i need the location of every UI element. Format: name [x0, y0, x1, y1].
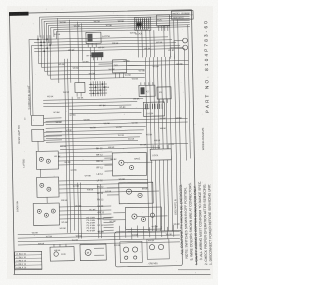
- terminal block TB1: [15, 251, 42, 270]
- wire: left trunk C: [72, 97, 75, 231]
- wire: bottom bus 1: [18, 232, 180, 235]
- plug P5 contacts: [147, 239, 169, 265]
- wire: bottom bus 2: [18, 235, 180, 238]
- wire: right margin trunk 2: [188, 24, 191, 158]
- connector J2 pin grid: [89, 81, 107, 96]
- lamp DS2: [183, 45, 188, 50]
- wire: center link 3: [43, 105, 131, 107]
- wire: S5 (RF unit) lead 2: [59, 183, 148, 185]
- wire: cluster link b: [46, 197, 48, 203]
- switch S1 (selector): [75, 82, 85, 96]
- wire: mid harness bus 4: [46, 130, 144, 132]
- label: model/rating table: [171, 11, 193, 20]
- wire: cord feed 1: [119, 226, 121, 240]
- wire: mid harness bus 1: [46, 118, 188, 121]
- wire: cluster link a: [40, 169, 42, 177]
- wire: cord feed 2: [125, 227, 127, 238]
- wire: cluster link c: [37, 141, 39, 151]
- wire: top supply bus 7: [54, 27, 190, 37]
- wire: S5 (RF unit) lead 4: [59, 191, 148, 193]
- wire: timer output 2: [141, 30, 144, 57]
- relay K4 (bake element circuit): [104, 152, 152, 176]
- wire: left trunk B: [67, 59, 70, 233]
- wire: S4 (LF unit) lead 2: [58, 156, 112, 157]
- wire: top supply bus 4: [46, 21, 190, 42]
- wire: feed pair b: [80, 183, 81, 239]
- wire: top supply bus 1: [40, 14, 190, 37]
- relay K2 (bake): [139, 82, 155, 96]
- wire: right trunk 3: [153, 57, 156, 231]
- wire: cord feed 10: [173, 225, 175, 237]
- wire: center link 1: [43, 98, 143, 100]
- plug P2: [91, 52, 103, 60]
- wire: feed pair a: [78, 183, 79, 239]
- connector P3 with pin list: [86, 217, 113, 233]
- wire: timer output 1: [137, 30, 140, 57]
- wire: bus drop 3: [78, 22, 79, 83]
- relay K3 (broil): [157, 87, 171, 103]
- wire: right trunk 7: [169, 57, 172, 231]
- wire: lamp leads: [174, 41, 183, 59]
- switch S5 (RF unit): [37, 177, 59, 197]
- wire: harness feeder 1: [38, 54, 188, 63]
- wire: right trunk L2: [178, 20, 182, 229]
- wire: S5 (RF unit) lead 3: [59, 187, 148, 189]
- switch S2 (oven light): [24, 115, 61, 126]
- relay K8 (lock motor): [150, 145, 171, 160]
- wire: timer output 5: [153, 30, 156, 57]
- wire: cord feed 6: [149, 227, 151, 237]
- wire: center link d1: [69, 108, 149, 110]
- relay K5 (broil element circuit): [107, 182, 159, 204]
- wire: timer output 4: [149, 30, 152, 57]
- wire: right trunk 1: [145, 57, 148, 231]
- thermostat TH1: [112, 60, 126, 78]
- wire: EOC drop b: [169, 26, 172, 57]
- wire: cord feed 5: [143, 226, 145, 239]
- wire: right trunk L1: [174, 20, 178, 229]
- label: diagram title bar (inverse): [9, 12, 29, 16]
- wire: feed pair d: [100, 184, 101, 238]
- connector J1 on control board: [143, 102, 164, 116]
- wire: cord feed 3: [131, 228, 133, 240]
- wire: right trunk 6: [165, 57, 168, 231]
- switch S4 (LF unit): [36, 151, 58, 169]
- wire: harness feeder 2: [41, 54, 188, 67]
- wire: top supply bus 3: [44, 18, 190, 40]
- enclosure: power cord terminal box: [115, 231, 183, 267]
- labels: wire color codes: [28, 20, 187, 253]
- relay K1 (door latch switch): [86, 32, 110, 47]
- wire: S4 (LF unit) lead 1: [58, 152, 112, 153]
- wire: cord feed 8: [161, 226, 163, 237]
- plug P4 contacts: [120, 241, 142, 262]
- wire: timer output 3: [145, 30, 148, 57]
- wire: top supply bus 8: [56, 30, 148, 39]
- wire: bus drop 4: [81, 24, 84, 61]
- wire: S6 (oven select) lead 4: [59, 217, 111, 220]
- clock/timer A1: [135, 17, 151, 35]
- wire: EOC drop a: [163, 26, 166, 57]
- node grid: harness junction matrix: [34, 33, 184, 58]
- wire: cord feed 7: [155, 225, 157, 239]
- wire: cord feed 4: [137, 225, 139, 237]
- wire: S6 (oven select) lead 2: [59, 209, 111, 212]
- wire: top supply bus 2: [42, 16, 190, 38]
- wire: mid harness bus 5: [46, 133, 142, 135]
- wire: S6 (oven select) lead 1: [59, 205, 111, 208]
- wire: right trunk 4: [157, 57, 160, 231]
- wire: feed pair c: [98, 184, 99, 238]
- wire: top supply bus 6: [51, 25, 190, 45]
- wire: bottom bus 3: [18, 238, 180, 241]
- labels: element circuit names: [96, 148, 105, 233]
- wire: mid harness bus 8: [60, 143, 188, 145]
- wire: right margin trunk: [184, 49, 186, 161]
- oven control A2: [157, 15, 170, 31]
- wire: mid harness bus 2: [46, 122, 188, 125]
- wire: S6 (oven select) lead 3: [59, 213, 111, 216]
- wire: S4 (LF unit) lead 3: [58, 160, 112, 161]
- motor M1 (convection): [80, 244, 106, 260]
- wire: center link 2: [43, 102, 137, 104]
- wire: mid harness bus 3: [46, 126, 146, 128]
- wire: TH1 link a: [99, 63, 113, 65]
- wire: K1 coil leads: [89, 47, 92, 80]
- wire: right trunk 2: [149, 57, 152, 231]
- wire: harness feeder 5: [50, 55, 144, 79]
- wire: bus drop 2: [70, 20, 71, 83]
- wire: top supply bus 5: [49, 23, 191, 44]
- wire: harness feeder 4: [47, 55, 144, 75]
- wire: TH1 link b: [127, 64, 145, 66]
- wire: right trunk 5: [161, 57, 164, 231]
- switch S6 (oven select): [33, 203, 59, 225]
- wire: center link d2: [69, 112, 141, 113]
- wire: mid harness bus 6: [46, 137, 140, 139]
- wire: mid harness bus 7: [46, 140, 138, 142]
- wire: left trunk A: [64, 59, 67, 233]
- wire: harness feeder 3: [44, 55, 144, 71]
- wire: mid harness bus 9: [60, 148, 160, 150]
- relay K7 (fan): [50, 244, 74, 261]
- wire: oven light feed (left drop): [29, 39, 35, 115]
- wire: S4 (LF unit) lead 4: [58, 164, 112, 165]
- wire: bus drop 1: [58, 18, 59, 83]
- lamp DS1: [183, 38, 188, 43]
- switch S3 (door): [32, 129, 62, 142]
- relay K6 (lower oven circuit): [113, 207, 167, 230]
- wire: oven light feed 2: [32, 45, 36, 115]
- wire: S5 (RF unit) lead 1: [59, 179, 148, 181]
- wire: bottom bus 4: [18, 242, 180, 245]
- wire: cord feed 9: [167, 227, 169, 239]
